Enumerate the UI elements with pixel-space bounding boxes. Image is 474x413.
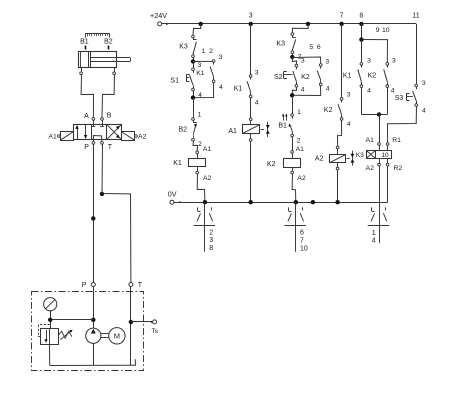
contact K2 pin4 rung7 [340, 118, 343, 121]
svg-text:A1: A1 [366, 137, 375, 144]
contact K1 pin4 rung3 [249, 95, 252, 98]
position ruler above cylinder [85, 33, 109, 35]
rejoin junction rung8 [377, 112, 381, 116]
svg-text:10: 10 [381, 152, 389, 159]
svg-text:3: 3 [347, 91, 351, 98]
wire rung11 feed [416, 24, 418, 84]
svg-text:K1: K1 [343, 73, 352, 80]
svg-text:P: P [82, 282, 87, 289]
wire branch K1 col9 [361, 40, 363, 63]
rail junction rung7 [335, 200, 339, 204]
sensor position mark B2 [108, 46, 110, 50]
branch junction rung5 [292, 54, 294, 57]
wire solenoid A1 to 0V rail [250, 141, 252, 202]
timer K3 pin R1 [386, 143, 389, 146]
suction / tank manifold [49, 345, 51, 366]
wire col6 return [292, 86, 321, 96]
link to valve 1V right solenoid [347, 158, 350, 160]
contact K2 latch pin4 [319, 83, 322, 86]
svg-text:K2: K2 [267, 161, 276, 168]
wire to B1 [292, 95, 294, 113]
svg-text:T: T [108, 144, 113, 151]
cylinder piston rod [90, 57, 130, 59]
svg-text:7: 7 [300, 238, 304, 245]
pushbutton S3 (NO) [416, 87, 418, 89]
wire S3 to timer R1 [388, 106, 417, 142]
relief valve adjust arrow [60, 331, 71, 340]
parallel branch wire (col2) [193, 60, 214, 62]
relay coil K2 pin A2 [292, 167, 294, 171]
rail junction spare [311, 200, 315, 204]
parallel branch wire (col6) [292, 57, 320, 64]
svg-text:5: 5 [309, 44, 313, 51]
wire rung8 feed [361, 24, 363, 40]
branch junction rung8 [359, 37, 363, 41]
svg-text:4: 4 [372, 237, 376, 244]
svg-text:0V: 0V [168, 189, 177, 198]
contact B1 (sensor NO) [292, 116, 294, 118]
relay coil K1 pin A2 [197, 167, 199, 171]
svg-text:3: 3 [325, 58, 329, 65]
svg-text:3: 3 [249, 12, 253, 19]
svg-text:10: 10 [382, 27, 390, 34]
wire solenoid A2 to 0V rail [337, 170, 339, 202]
rail junction K1 coil [203, 200, 207, 204]
wire col10 to rejoin [387, 88, 389, 115]
rail junction rung3 [249, 200, 253, 204]
wire rung7 feed [341, 24, 343, 98]
pump 0P1 [86, 328, 101, 343]
valve solenoid A2 pin bottom [337, 163, 339, 168]
svg-text:11: 11 [412, 12, 419, 19]
wire to timer A1 [379, 115, 381, 143]
cylinder port left [81, 68, 83, 72]
limit switch symbol above B1 [283, 116, 285, 121]
svg-text:9: 9 [376, 27, 380, 34]
wire S2 return [292, 87, 296, 95]
contact K1 latch pin4 [212, 80, 215, 83]
wire branch S2 [292, 57, 296, 64]
svg-text:3: 3 [392, 57, 396, 64]
svg-text:S1: S1 [170, 78, 179, 85]
valve solenoid A2 pin top [336, 146, 339, 149]
contact B2 pin2 [192, 138, 195, 141]
svg-text:A1: A1 [296, 146, 305, 153]
junction T pipe corner [100, 192, 104, 196]
svg-text:1: 1 [202, 48, 206, 55]
relief valve 0V1 body [41, 329, 59, 345]
svg-text:2: 2 [209, 48, 213, 55]
wire coil K1 to 0V rail [197, 174, 205, 202]
junction on P pipe [91, 216, 95, 220]
contact K1 pin3 col9 [360, 63, 363, 66]
wire rung5 feed [292, 24, 308, 33]
contact K1 (NO) rung3 [250, 77, 252, 79]
power unit port P [91, 283, 95, 287]
svg-text:2: 2 [209, 229, 213, 236]
rail junction rung3 [249, 22, 253, 26]
relay coil K1 [197, 154, 199, 158]
rejoin junction rung5 [290, 93, 294, 97]
svg-text:B: B [107, 112, 112, 119]
svg-text:4: 4 [391, 87, 395, 94]
svg-text:A1: A1 [203, 146, 212, 153]
timer relay K3 (on-delay, preset 10) [379, 145, 381, 150]
relief valve spring [59, 331, 72, 338]
timer K3 pin A2 [379, 158, 381, 163]
contact K2 latch (NO) [320, 66, 322, 68]
contact K2 (NO) rung7 [341, 100, 343, 102]
hose cylinder-left to valve A [81, 75, 93, 118]
Ts measurement port [131, 321, 153, 323]
wire B2 to coil K1 [193, 141, 198, 151]
svg-text:2: 2 [198, 141, 202, 148]
wire col2 return [193, 83, 214, 98]
wire coil K2 to 0V rail [292, 174, 296, 202]
sensor position mark B1 [85, 46, 87, 50]
svg-text:1: 1 [372, 230, 376, 237]
svg-text:8: 8 [209, 245, 213, 252]
wire rung3 feed [250, 24, 252, 75]
valve solenoid A1 pin top [249, 118, 252, 121]
svg-text:+24V: +24V [150, 11, 167, 20]
solenoid A1 (valve left) [61, 132, 74, 141]
power unit enclosure (dash-dot) [32, 292, 144, 371]
contact K2 pin4 col10 [386, 85, 389, 88]
pipe valve T to power unit [101, 144, 104, 194]
pushbutton S2 pin top [295, 64, 298, 67]
svg-text:1: 1 [297, 109, 301, 116]
svg-text:4: 4 [367, 87, 371, 94]
contact K1 latch (NO) [213, 62, 215, 64]
rejoin junction [191, 95, 195, 99]
pushbutton S1 (NO) [193, 71, 195, 73]
svg-text:Ts: Ts [152, 328, 159, 335]
valve port A [92, 118, 95, 121]
solenoid A2 (valve right) [122, 132, 135, 141]
valve port B [101, 118, 104, 121]
cylinder port right [114, 68, 116, 72]
hose cylinder-right to valve B [102, 75, 115, 118]
svg-text:7: 7 [339, 12, 343, 19]
contact K2 pin3 col10 [386, 63, 389, 66]
wire K2 to solenoid A2 [338, 120, 342, 146]
svg-text:S2: S2 [274, 74, 283, 81]
branch junction [191, 59, 195, 63]
wire S1 to rejoin [193, 91, 195, 98]
svg-text:3: 3 [219, 54, 223, 61]
wire to B2 [193, 98, 195, 118]
contact K3 pin1 rung5 [291, 33, 294, 36]
svg-text:10: 10 [300, 245, 308, 252]
svg-text:6: 6 [300, 230, 304, 237]
valve left position arrows [77, 128, 79, 139]
contact K2 pin3 rung7 [340, 97, 343, 100]
contact K1 latch pin3 [212, 60, 215, 63]
valve solenoid A2 [337, 149, 339, 155]
svg-text:B2: B2 [179, 127, 188, 134]
svg-text:3: 3 [255, 69, 259, 76]
svg-text:4: 4 [347, 121, 351, 128]
pressure gauge [44, 298, 57, 311]
pushbutton S3 pin bottom [415, 104, 418, 107]
svg-text:8: 8 [359, 12, 363, 19]
+24V rail [162, 23, 417, 25]
valve centre position blocked ports [93, 120, 95, 126]
pushbutton S1 pin top [192, 68, 195, 71]
svg-text:K2: K2 [368, 73, 377, 80]
svg-text:3: 3 [301, 57, 305, 64]
svg-text:B1: B1 [278, 122, 287, 129]
svg-text:4: 4 [326, 86, 330, 93]
contact K3 pin2 [192, 55, 195, 58]
motor M [109, 328, 125, 344]
svg-text:K1: K1 [173, 160, 182, 167]
pump suction line [93, 343, 95, 365]
svg-text:T: T [138, 282, 143, 289]
valve right position crossed arrows [106, 124, 121, 140]
svg-text:4: 4 [422, 108, 426, 115]
junction P to gauge branch [91, 318, 95, 322]
cylinder 1A (double-acting) [79, 52, 117, 68]
svg-text:K2: K2 [301, 74, 310, 81]
svg-text:R1: R1 [392, 137, 401, 144]
contact mirror K1 (rungs 2 3 8) [204, 202, 206, 252]
valve port T [101, 142, 104, 145]
svg-text:B2: B2 [104, 38, 113, 45]
svg-text:K1: K1 [234, 85, 243, 92]
valve port P [92, 142, 95, 145]
svg-text:A2: A2 [315, 155, 324, 162]
cylinder piston [88, 52, 90, 68]
junction tank line to Ts [129, 320, 133, 324]
wire branch S1 [193, 61, 195, 68]
relay coil K2 pin A1 [291, 151, 294, 154]
svg-text:K2: K2 [324, 107, 333, 114]
wire timer R2 to 0V rail end [387, 166, 389, 202]
0V rail [174, 202, 388, 204]
relay coil K1 pin A1 [196, 151, 199, 154]
svg-text:K3: K3 [276, 40, 285, 47]
contact K3 pin1 [192, 35, 195, 38]
rejoin wire rung8 [361, 114, 387, 116]
timer K3 pin A1 [378, 143, 381, 146]
contact K3 pin2 rung5 [291, 51, 294, 54]
rail junction rung1 [199, 22, 203, 26]
pump-motor coupling [101, 333, 109, 335]
wire timer A2 to 0V rail [379, 166, 381, 202]
contact K1 (NO) col9 [361, 65, 363, 67]
svg-text:A1: A1 [228, 128, 237, 135]
junction at gauge branch [48, 318, 52, 322]
svg-text:3: 3 [209, 237, 213, 244]
svg-text:4: 4 [301, 87, 305, 94]
svg-text:M: M [114, 332, 120, 341]
link to valve 1V left solenoid [261, 129, 264, 131]
svg-text:3: 3 [198, 62, 202, 69]
contact K1 pin4 col9 [360, 85, 363, 88]
pushbutton S3 pin top [415, 84, 418, 87]
relay coil K2 [292, 153, 294, 158]
contact B2 (sensor NC) [193, 120, 195, 122]
svg-text:P: P [84, 144, 89, 151]
svg-text:3: 3 [422, 80, 426, 87]
rail junction rung5 [306, 22, 310, 26]
pipe valve P to power unit [93, 144, 95, 283]
contact K3 (NC) rung1 [193, 38, 195, 40]
contact K2 (NO) col10 [387, 65, 389, 67]
pushbutton S2 (NO) [296, 67, 298, 69]
power unit port T [129, 283, 133, 287]
svg-text:4: 4 [255, 100, 259, 107]
contact B2 pin1 [192, 118, 195, 121]
svg-text:2: 2 [297, 137, 301, 144]
contact K2 latch pin3 [319, 64, 322, 67]
relief valve pilot line (dashed) [38, 324, 50, 326]
wire to branch point [193, 58, 195, 62]
gauge branch line [50, 319, 93, 321]
pipe T horizontal [102, 194, 131, 283]
tank return line [130, 286, 132, 365]
svg-text:6: 6 [317, 44, 321, 51]
svg-text:A2: A2 [297, 175, 306, 182]
parallel branch wire (col10) [361, 40, 387, 63]
svg-text:B1: B1 [80, 38, 89, 45]
directional valve 1V (4/3-way, solenoid operated) [74, 125, 122, 140]
svg-text:1: 1 [198, 111, 202, 118]
svg-text:A1: A1 [48, 134, 57, 141]
relief valve flow arrow [46, 330, 48, 340]
timer K3 pin R2 [387, 158, 389, 163]
valve solenoid A1 [250, 121, 252, 125]
svg-text:4: 4 [219, 84, 223, 91]
relief valve through line [49, 328, 51, 345]
P line inside power unit [93, 286, 95, 328]
svg-text:A: A [84, 113, 89, 120]
svg-text:S3: S3 [395, 95, 404, 102]
rail junction rung8 [359, 22, 363, 26]
svg-text:A2: A2 [203, 175, 212, 182]
valve solenoid A1 pin bottom [250, 134, 252, 139]
wire B1 to coil K2 [292, 137, 294, 151]
pushbutton S2 pin bottom [295, 84, 298, 87]
rail junction K2 coil [294, 200, 298, 204]
svg-text:K3: K3 [179, 43, 188, 50]
contact K3 (NC) rung5 [292, 35, 294, 37]
contact K1 pin3 rung3 [249, 75, 252, 78]
svg-text:A2: A2 [366, 165, 375, 172]
svg-text:K3: K3 [356, 152, 364, 159]
contact mirror K2 (rungs 6 7 10) [295, 202, 297, 252]
contact B1 pin1 [291, 114, 294, 117]
wire col9 to rejoin [361, 88, 363, 115]
svg-text:K1: K1 [196, 70, 205, 77]
contact B1 pin2 [291, 134, 294, 137]
wire rung1 feed [193, 24, 201, 35]
rail junction rung7 [339, 22, 343, 26]
svg-text:A2: A2 [138, 134, 147, 141]
svg-text:R2: R2 [393, 165, 402, 172]
wire to solenoid A1 [250, 98, 252, 118]
contact mirror K3 (rungs 1 4) [379, 202, 381, 243]
pushbutton S1 pin bottom [192, 88, 195, 91]
svg-text:3: 3 [367, 57, 371, 64]
